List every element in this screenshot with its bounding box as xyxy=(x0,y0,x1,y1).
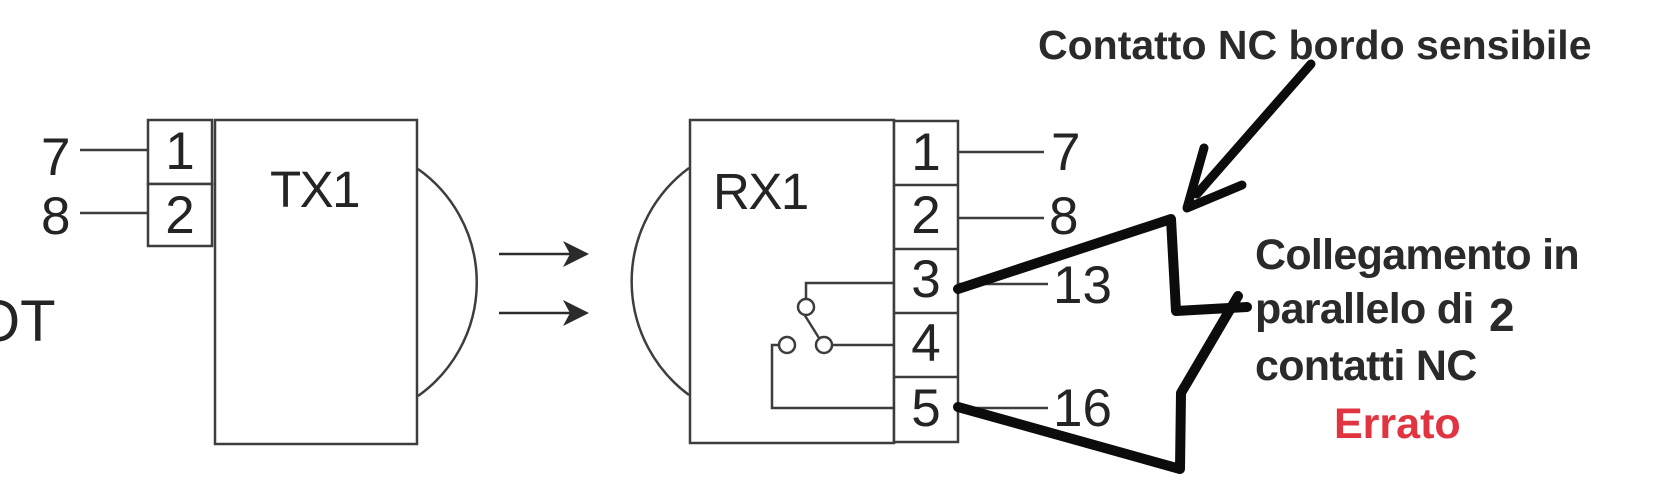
svg-text:TX1: TX1 xyxy=(270,161,359,218)
TX1 terminal 2 box xyxy=(148,184,212,246)
wire lead 7 to TX1 terminal 1 xyxy=(80,149,149,152)
hand-drawn arrowhead xyxy=(1187,148,1242,208)
hand-drawn link from terminal 3 up to junction and tick xyxy=(958,219,1247,311)
wire terminal 1 to 7 xyxy=(958,151,1044,154)
svg-text:Errato: Errato xyxy=(1334,400,1461,448)
svg-text:2: 2 xyxy=(911,186,940,245)
svg-text:1: 1 xyxy=(165,122,194,181)
TX1 terminal 1 box xyxy=(148,120,212,184)
RX1 lens arc xyxy=(632,168,689,395)
relay fixed contact circle (terminal 4 side) xyxy=(816,337,832,353)
svg-text:1: 1 xyxy=(911,123,940,182)
wire terminal 2 to 8 xyxy=(958,217,1044,220)
relay wire contact to terminal 5 xyxy=(772,345,894,408)
relay fixed contact circle (terminal 5 side) xyxy=(779,337,795,353)
beam arrow upper xyxy=(499,241,589,267)
svg-text:7: 7 xyxy=(1051,123,1080,182)
beam arrow lower xyxy=(499,300,589,326)
svg-text:contatti NC: contatti NC xyxy=(1255,342,1477,390)
wire terminal 5 to 16 xyxy=(958,407,1048,410)
svg-text:8: 8 xyxy=(1049,187,1078,246)
wire lead 8 to TX1 terminal 2 xyxy=(80,212,149,215)
svg-text:5: 5 xyxy=(911,379,940,438)
relay wire contact to terminal 4 xyxy=(832,344,894,347)
svg-text:8: 8 xyxy=(41,187,70,246)
relay pivot contact circle xyxy=(798,299,814,315)
RX1 terminal strip xyxy=(894,121,958,442)
relay wire pivot to terminal 3 xyxy=(806,283,894,299)
svg-text:parallelo di: parallelo di xyxy=(1255,285,1474,333)
svg-text:2: 2 xyxy=(165,186,194,245)
TX1 lens arc xyxy=(418,169,477,396)
svg-text:7: 7 xyxy=(41,128,70,187)
hand-drawn arrow shaft xyxy=(1197,64,1311,194)
svg-text:3: 3 xyxy=(911,250,940,309)
svg-text:16: 16 xyxy=(1053,379,1112,438)
svg-text:13: 13 xyxy=(1053,256,1112,315)
svg-text:2: 2 xyxy=(1489,289,1515,341)
wire terminal 3 to 13 xyxy=(958,283,1048,286)
receiver RX1 box xyxy=(690,120,894,443)
relay contact blade xyxy=(804,314,819,338)
transmitter TX1 box xyxy=(215,120,417,444)
svg-text:Contatto NC bordo sensibile: Contatto NC bordo sensibile xyxy=(1038,22,1592,68)
svg-text:Collegamento in: Collegamento in xyxy=(1255,231,1579,279)
svg-text:OT: OT xyxy=(0,289,56,354)
svg-text:4: 4 xyxy=(911,314,940,373)
hand-drawn link slash down to terminal 5 xyxy=(958,296,1238,469)
svg-text:RX1: RX1 xyxy=(713,163,808,220)
